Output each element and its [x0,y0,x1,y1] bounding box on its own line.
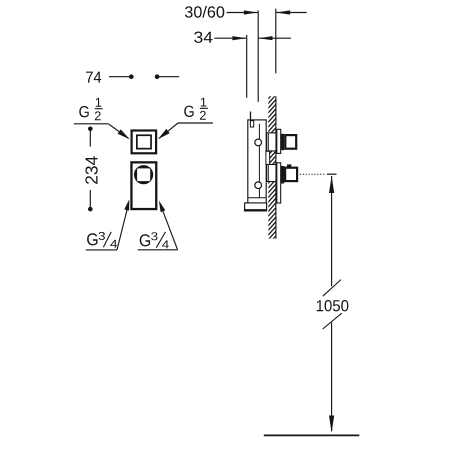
upper connector black collar [281,134,285,150]
lower connector tube inner line [267,165,269,181]
label G3/4 right G [140,234,150,246]
dim 30/60 left arrowhead [276,10,290,14]
centre dotted line [300,173,325,175]
lower connector tube [267,165,276,182]
valve body plate side view [248,120,266,210]
dim 234 text [85,156,97,184]
label G3/4 left leader [117,208,127,250]
dim 30/60 right line [276,12,307,14]
dim 74 left line [109,76,131,78]
dim 34 left line [214,37,246,39]
label G1/2 right underline [178,122,213,124]
dim 30/60 left line [227,12,258,14]
wall face line [275,96,277,238]
dim 74 right dot [155,74,160,79]
body bump between connectors [266,151,270,164]
mounting hole lower [255,182,262,189]
plate inner vertical line [258,124,260,198]
dim 1050 top tick [327,173,337,175]
lower connector flange [277,163,281,203]
dim 34 right line [259,37,292,39]
plate top pin [250,112,252,121]
label G3/4 right slash [156,232,165,248]
label G1/2 left G [79,106,88,117]
label G1/2 right leader [159,123,178,138]
label G3/4 left arrowhead [124,199,129,210]
plate hook detail [250,121,253,127]
label G3/4 left underline [86,249,117,251]
label G3/4 left slash [103,232,111,247]
trim plate outer square [132,131,157,154]
dim 74 right line [157,76,179,78]
lower connector black collar [281,166,285,184]
extension line L2 [257,11,259,102]
valve front body rect [131,162,156,209]
label G1/2 right fraction bar [200,107,208,109]
dim 234 lower dot [88,207,93,212]
dim 234 upper dot [88,127,93,132]
label G1/2 right arrowhead [158,129,170,139]
dim 1050 break mark upper [323,280,341,297]
upper connector stem [285,135,296,149]
floor line [264,434,360,436]
plate shelf line [248,197,266,199]
dim 234 upper line [89,129,91,147]
dim 74 text [86,72,101,83]
body base block [245,203,267,210]
dim 1050 break mark lower [323,313,342,329]
body base bottom edge [244,209,267,211]
label G1/2 left numerator [96,98,102,107]
dim 234 lower line [89,190,91,209]
extension line L3 [275,9,277,74]
dim 34 right arrowhead [232,36,246,40]
lower connector stem [285,168,297,181]
label G1/2 right G [184,106,193,117]
label G3/4 left G [87,233,97,245]
dim 1050 down arrow [329,416,334,433]
label G3/4 left denominator [110,240,117,248]
label G3/4 right denominator [162,240,169,248]
label G1/2 left underline [74,123,108,125]
label G1/2 right numerator [201,98,207,107]
dim 1050 lower line [331,323,333,432]
label G3/4 right leader [162,210,177,250]
label G3/4 right underline [138,249,178,251]
handle knob circle [134,165,153,184]
extension line L1 [246,35,248,98]
label G1/2 left leader [108,124,128,139]
label G1/2 right denominator [200,111,206,120]
upper connector taper [267,133,276,151]
trim plate inner square [137,135,151,148]
label G3/4 right numerator [151,232,157,240]
label G3/4 right arrowhead [159,201,165,213]
dim 34 text [194,32,212,43]
label G1/2 left denominator [95,111,101,120]
dim 1050 text [317,300,349,311]
dim 30/60 text [185,6,224,18]
upper connector flange [277,129,281,153]
dim 74 left dot [129,74,134,79]
dim 34 left arrowhead [259,36,273,40]
label G1/2 left fraction bar [95,108,103,110]
handle square hole [137,168,150,181]
mounting hole upper [255,139,262,146]
label G3/4 left numerator [99,232,105,240]
dim 1050 up arrow [329,176,334,193]
dim 1050 upper line [331,176,333,286]
dim 30/60 right arrowhead [244,10,258,14]
upper connector taper inner line [267,134,269,151]
label G1/2 left arrowhead [118,129,130,139]
lower connector stop tab [287,164,291,167]
